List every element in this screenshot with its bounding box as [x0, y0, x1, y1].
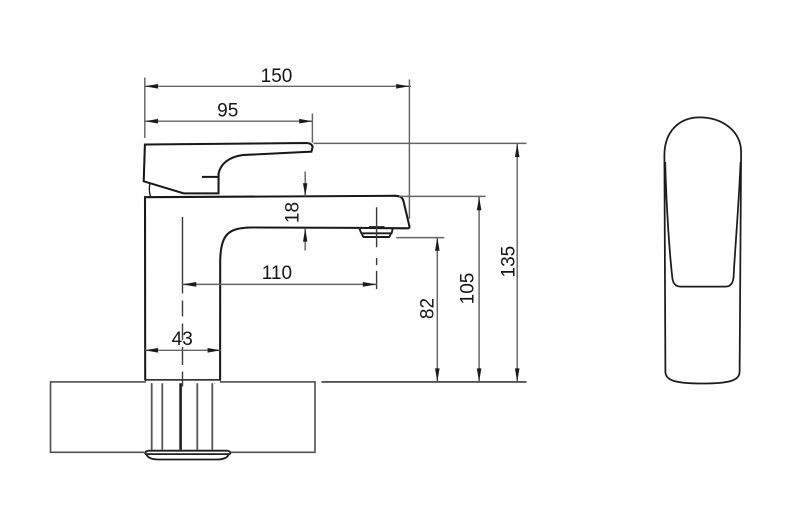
svg-text:43: 43	[172, 329, 193, 350]
svg-text:105: 105	[457, 273, 478, 305]
svg-text:150: 150	[261, 66, 293, 87]
svg-text:95: 95	[217, 101, 238, 122]
svg-text:18: 18	[282, 202, 303, 223]
svg-text:135: 135	[498, 246, 519, 278]
svg-text:110: 110	[262, 263, 292, 284]
svg-text:82: 82	[417, 298, 438, 319]
